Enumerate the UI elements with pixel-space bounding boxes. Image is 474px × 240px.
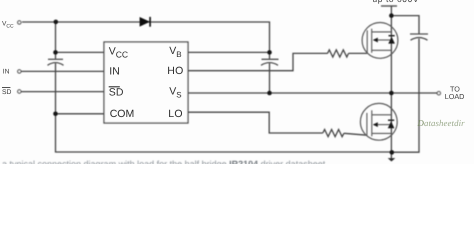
- svg-text:Datasheetdir: Datasheetdir: [417, 118, 466, 128]
- svg-text:IN: IN: [109, 66, 120, 78]
- svg-text:COM: COM: [110, 108, 135, 120]
- svg-text:LOAD: LOAD: [445, 92, 465, 101]
- svg-text:HO: HO: [167, 65, 183, 77]
- svg-text:SD: SD: [2, 89, 12, 96]
- svg-text:IN: IN: [3, 69, 10, 76]
- svg-text:LO: LO: [168, 108, 183, 120]
- svg-text:a typical connection diagram w: a typical connection diagram with load f…: [2, 159, 326, 164]
- svg-text:up to 600V: up to 600V: [373, 0, 420, 4]
- svg-text:SD: SD: [109, 86, 124, 98]
- svg-text:VCC: VCC: [2, 21, 14, 30]
